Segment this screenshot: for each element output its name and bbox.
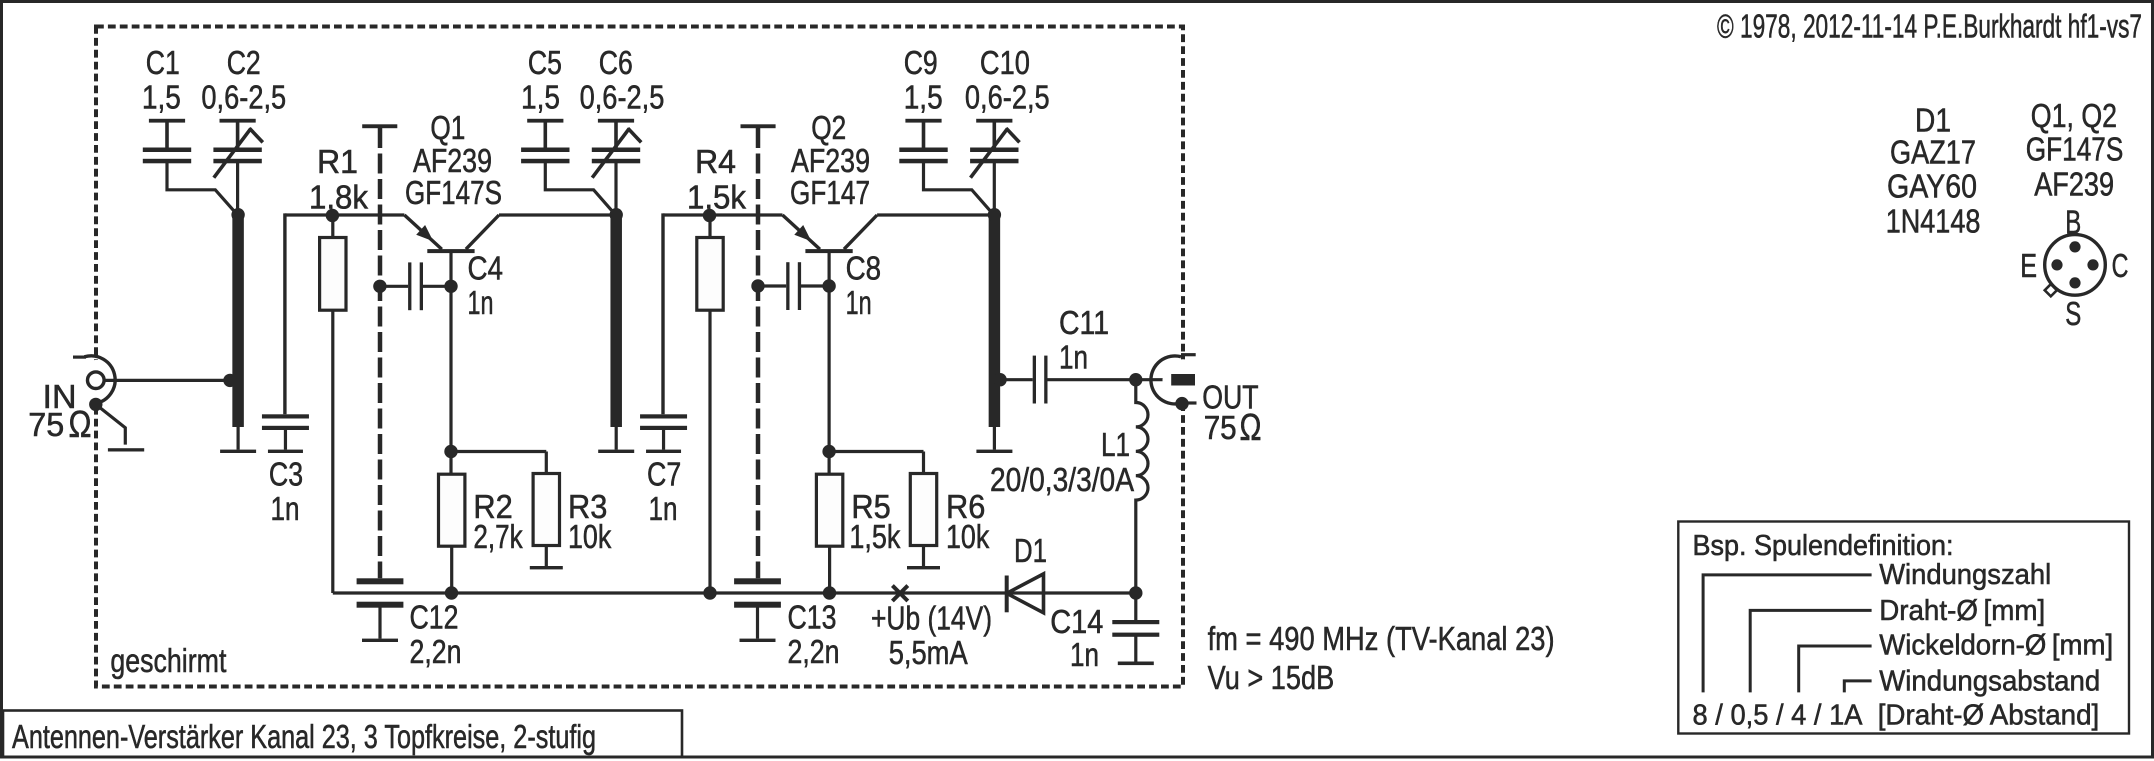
coil definition box xyxy=(1678,522,2129,734)
label R5 xyxy=(849,489,900,556)
ground R6 xyxy=(907,546,940,570)
shield partition wall 2 xyxy=(741,124,776,578)
pinout Q1/Q2 case diagram xyxy=(2045,235,2106,297)
label C7 xyxy=(647,457,681,529)
node R5 bus xyxy=(823,586,836,599)
svg-text:Windungsabstand: Windungsabstand xyxy=(1879,666,2100,698)
svg-text:GAZ17: GAZ17 xyxy=(1890,135,1976,172)
svg-text:C1: C1 xyxy=(146,45,180,82)
+Ub feed point x-mark xyxy=(892,586,907,601)
svg-text:C4: C4 xyxy=(468,251,504,288)
svg-text:R4: R4 xyxy=(695,144,736,181)
svg-text:C14: C14 xyxy=(1050,604,1103,641)
svg-text:+Ub (14V): +Ub (14V) xyxy=(871,601,992,638)
node bar2 top xyxy=(610,208,623,221)
resonator bar 2 (Topfkreis 2) xyxy=(598,215,634,453)
label C1 xyxy=(142,45,181,117)
capacitor C2 (trimmer) xyxy=(213,119,262,215)
label C12 xyxy=(410,600,462,672)
wire Q1 base xyxy=(449,253,452,452)
wire +Ub bus xyxy=(333,591,1136,594)
connector OUT (coax) xyxy=(1151,355,1204,404)
svg-text:5,5mA: 5,5mA xyxy=(889,635,969,672)
svg-text:Q1, Q2: Q1, Q2 xyxy=(2031,98,2117,135)
svg-text:8 / 0,5 / 4 / 1A: 8 / 0,5 / 4 / 1A xyxy=(1693,699,1863,731)
wire Q2 collector to bar3 xyxy=(877,213,994,216)
svg-text:1,5: 1,5 xyxy=(904,80,943,117)
ground R3 xyxy=(530,546,563,570)
svg-text:C10: C10 xyxy=(980,45,1030,82)
wire emitter node Q1 xyxy=(285,213,405,414)
svg-text:2,2n: 2,2n xyxy=(410,634,462,671)
svg-text:1n: 1n xyxy=(271,491,300,528)
resistor R6 xyxy=(910,452,936,546)
svg-text:geschirmt: geschirmt xyxy=(110,643,227,680)
svg-text:Ω: Ω xyxy=(69,404,92,446)
node bar3 tap xyxy=(993,373,1006,386)
label Q1 Q2 types xyxy=(2026,98,2124,204)
node OUT shield xyxy=(1175,397,1196,410)
svg-text:C7: C7 xyxy=(647,457,681,494)
resistor R2 xyxy=(439,452,465,594)
bracket line Draht xyxy=(1750,610,1871,692)
label Q2 xyxy=(790,110,870,212)
node L1 bus xyxy=(1129,586,1142,599)
label C13 xyxy=(788,600,840,672)
label C10 xyxy=(965,45,1050,117)
svg-text:C11: C11 xyxy=(1059,305,1109,342)
title box xyxy=(3,711,682,758)
svg-text:Ω: Ω xyxy=(1240,407,1262,449)
resonator bar 1 (Topfkreis 1) xyxy=(220,215,256,453)
label C8 xyxy=(846,251,882,323)
svg-text:Antennen-Verstärker Kanal 23,: Antennen-Verstärker Kanal 23, 3 Topfkrei… xyxy=(12,718,596,755)
svg-text:1,5k: 1,5k xyxy=(849,519,900,556)
svg-text:10k: 10k xyxy=(946,519,989,556)
capacitor C8 xyxy=(758,262,829,310)
svg-text:Wickeldorn-Ø [mm]: Wickeldorn-Ø [mm] xyxy=(1879,630,2113,662)
label fm xyxy=(1208,621,1555,658)
label C2 xyxy=(201,45,286,117)
svg-text:1,5: 1,5 xyxy=(142,80,181,117)
label C5 xyxy=(521,45,562,117)
svg-text:C5: C5 xyxy=(528,45,562,82)
label C4 xyxy=(468,251,504,323)
wire OUT node to connector pin xyxy=(1136,378,1172,381)
svg-text:1n: 1n xyxy=(846,285,872,322)
wire Q1 collector to bar2 xyxy=(499,213,616,216)
capacitor C1 xyxy=(143,119,237,214)
svg-text:20/0,3/3/0A: 20/0,3/3/0A xyxy=(990,462,1135,499)
svg-text:Q1: Q1 xyxy=(430,110,465,147)
svg-text:0,6-2,5: 0,6-2,5 xyxy=(201,80,286,117)
node C4 left xyxy=(373,280,386,293)
label C6 xyxy=(580,45,665,117)
label Draht-Abstand xyxy=(1878,699,2100,731)
svg-text:B: B xyxy=(2065,205,2081,242)
label +Ub xyxy=(871,601,992,673)
inductor L1 (choke) xyxy=(1136,380,1148,593)
svg-text:C: C xyxy=(2112,248,2129,285)
capacitor C9 xyxy=(899,119,993,214)
svg-text:1n: 1n xyxy=(1070,637,1099,674)
label R3 xyxy=(568,489,611,556)
svg-text:1,5k: 1,5k xyxy=(687,180,746,217)
svg-text:E: E xyxy=(2020,248,2037,285)
label IN xyxy=(28,379,91,446)
svg-text:R1: R1 xyxy=(317,144,358,181)
wire R5-R6 link xyxy=(829,450,923,453)
svg-text:C2: C2 xyxy=(227,45,261,82)
capacitor C7 xyxy=(640,414,687,453)
svg-text:10k: 10k xyxy=(568,519,611,556)
resistor R4 xyxy=(697,221,723,593)
label L1 xyxy=(990,427,1135,499)
node bar1 tap xyxy=(223,374,236,387)
svg-text:fm = 490 MHz (TV-Kanal 23): fm = 490 MHz (TV-Kanal 23) xyxy=(1208,621,1555,658)
label coil example values xyxy=(1693,699,1863,731)
capacitor C11 xyxy=(1033,356,1136,404)
svg-text:C9: C9 xyxy=(904,45,938,82)
svg-text:C13: C13 xyxy=(788,600,837,637)
capacitor C4 xyxy=(380,262,451,310)
label R2 xyxy=(473,489,522,556)
svg-text:0,6-2,5: 0,6-2,5 xyxy=(965,80,1050,117)
label D1 types xyxy=(1886,103,1981,241)
node bar3 top xyxy=(988,208,1001,221)
node R1 top xyxy=(326,209,339,222)
label Wickeldorn-diameter xyxy=(1879,630,2113,662)
label Windungsabstand xyxy=(1879,666,2100,698)
label R6 xyxy=(946,489,989,556)
svg-text:GF147: GF147 xyxy=(790,175,870,212)
svg-text:Bsp. Spulendefinition:: Bsp. Spulendefinition: xyxy=(1693,530,1954,562)
connector IN (coax) xyxy=(73,356,119,404)
label D1 xyxy=(1014,533,1047,570)
node C8 right xyxy=(822,279,835,292)
ground IN shield xyxy=(96,404,144,451)
node C8 left xyxy=(751,279,764,292)
node Q1 base divider xyxy=(444,445,457,458)
wire R2-R3 link xyxy=(451,450,546,453)
capacitor C10 (trimmer) xyxy=(970,119,1019,215)
transistor Q2 xyxy=(783,215,878,253)
bracket line Windungsabstand xyxy=(1844,681,1871,693)
feedthrough capacitor C13 xyxy=(734,578,781,642)
node R2 bus xyxy=(445,586,458,599)
shield partition wall 1 xyxy=(362,124,397,578)
svg-text:AF239: AF239 xyxy=(2034,167,2114,204)
resistor R3 xyxy=(533,452,559,546)
shield enclosure (geschirmt) dashed box xyxy=(96,27,1183,687)
svg-text:GF147S: GF147S xyxy=(405,175,502,212)
pinout labels xyxy=(2020,205,2128,334)
node Q2 base divider xyxy=(822,445,835,458)
bracket line Windungszahl xyxy=(1703,575,1872,693)
wire bar3 tap to C11 xyxy=(1000,378,1033,381)
node R4 top xyxy=(703,209,716,222)
label Q1 xyxy=(405,110,502,212)
copyright line xyxy=(1717,9,2142,46)
node C4 right xyxy=(444,280,457,293)
svg-text:GAY60: GAY60 xyxy=(1887,169,1977,206)
svg-text:1n: 1n xyxy=(468,285,494,322)
svg-text:Draht-Ø [mm]: Draht-Ø [mm] xyxy=(1879,595,2045,627)
label Bsp. Spulendefinition xyxy=(1693,530,1954,562)
label R1 xyxy=(309,144,368,217)
svg-text:© 1978, 2012-11-14 P.E.Burkhar: © 1978, 2012-11-14 P.E.Burkhardt hf1-vs7 xyxy=(1717,9,2142,46)
svg-text:Q2: Q2 xyxy=(811,110,846,147)
wire emitter node Q2 xyxy=(663,213,783,414)
svg-text:1,8k: 1,8k xyxy=(309,180,368,217)
label Draht-diameter xyxy=(1879,595,2045,627)
svg-text:C8: C8 xyxy=(846,251,882,288)
feedthrough capacitor C12 xyxy=(357,578,404,642)
svg-text:0,6-2,5: 0,6-2,5 xyxy=(580,80,665,117)
svg-text:C3: C3 xyxy=(269,457,303,494)
svg-text:C12: C12 xyxy=(410,600,459,637)
svg-text:C6: C6 xyxy=(599,45,633,82)
svg-text:75: 75 xyxy=(28,407,64,444)
node IN shield xyxy=(89,398,102,411)
wire Q2 base xyxy=(827,253,830,452)
capacitor C5 xyxy=(521,119,615,214)
capacitor C14 xyxy=(1112,593,1159,665)
label C11 xyxy=(1059,305,1109,377)
label C9 xyxy=(904,45,943,117)
svg-text:L1: L1 xyxy=(1101,427,1130,464)
svg-text:2,7k: 2,7k xyxy=(473,519,522,556)
svg-text:1n: 1n xyxy=(1059,340,1088,377)
svg-text:Vu > 15dB: Vu > 15dB xyxy=(1208,660,1335,697)
svg-text:75: 75 xyxy=(1204,410,1237,447)
capacitor C6 (trimmer) xyxy=(592,119,641,215)
svg-text:1,5: 1,5 xyxy=(521,80,560,117)
wire IN center pin to bar1 tap xyxy=(104,379,231,382)
label Windungszahl xyxy=(1879,559,2051,591)
resistor R1 xyxy=(320,221,346,593)
svg-text:S: S xyxy=(2065,296,2081,333)
label C14 xyxy=(1050,604,1103,674)
label geschirmt xyxy=(110,643,227,680)
svg-text:2,2n: 2,2n xyxy=(788,634,840,671)
svg-text:1n: 1n xyxy=(649,491,678,528)
svg-text:Windungszahl: Windungszahl xyxy=(1879,559,2051,591)
bracket line Wickeldorn xyxy=(1799,646,1872,692)
diode D1 xyxy=(1007,574,1044,613)
node OUT center xyxy=(1129,373,1142,386)
svg-text:D1: D1 xyxy=(1014,533,1047,570)
node bar1 top xyxy=(231,208,244,221)
capacitor C3 xyxy=(262,414,309,453)
svg-text:GF147S: GF147S xyxy=(2026,132,2124,169)
label C3 xyxy=(269,457,303,529)
label OUT xyxy=(1202,380,1261,450)
svg-text:[Draht-Ø Abstand]: [Draht-Ø Abstand] xyxy=(1878,699,2100,731)
svg-text:1N4148: 1N4148 xyxy=(1886,204,1981,241)
transistor Q1 xyxy=(404,215,499,253)
resonator bar 3 (Topfkreis 3) xyxy=(976,215,1012,453)
label Vu xyxy=(1208,660,1335,697)
node R4 bus xyxy=(703,586,716,599)
label R4 xyxy=(687,144,746,217)
resistor R5 xyxy=(816,452,842,594)
title text xyxy=(12,718,596,755)
